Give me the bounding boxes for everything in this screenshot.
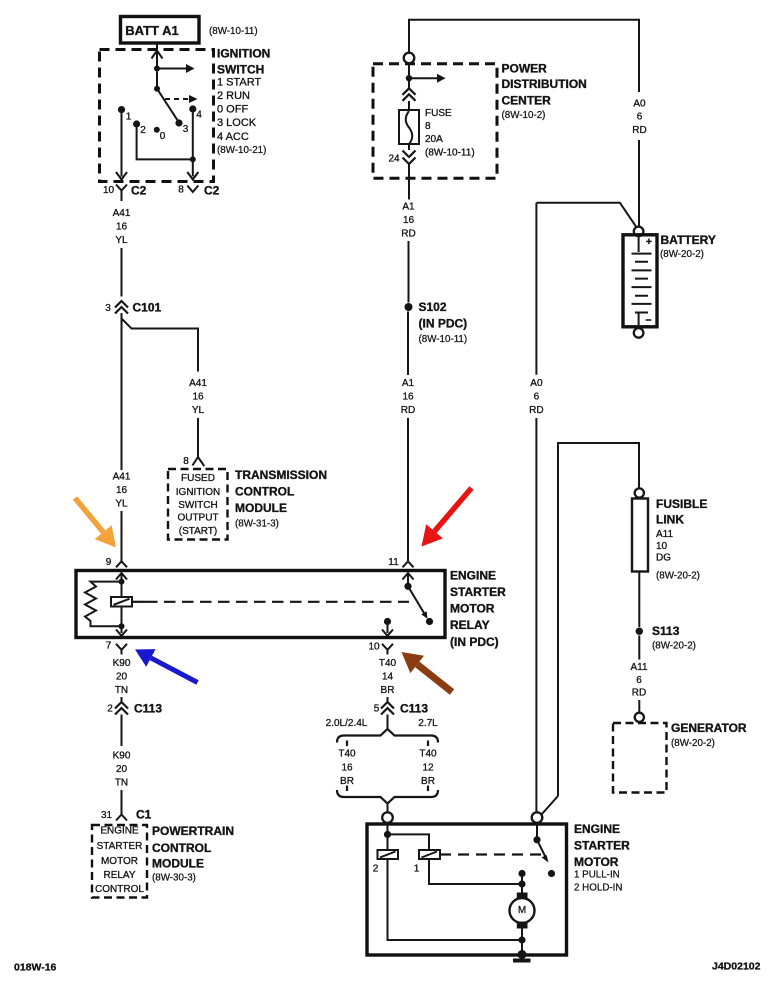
svg-text:YL: YL [115,235,128,246]
svg-text:IGNITION: IGNITION [217,47,270,61]
svg-text:1 PULL-IN: 1 PULL-IN [574,870,620,881]
svg-text:6: 6 [534,392,540,403]
svg-text:RD: RD [632,125,646,136]
svg-text:3: 3 [183,124,189,135]
svg-text:(8W-10-21): (8W-10-21) [217,145,266,156]
svg-text:A11: A11 [630,662,647,673]
svg-text:A0: A0 [530,378,543,389]
svg-text:MODULE: MODULE [152,857,204,871]
svg-text:4: 4 [196,110,202,121]
svg-text:C113: C113 [134,702,162,716]
svg-text:2 RUN: 2 RUN [217,90,250,102]
svg-text:(8W-10-11): (8W-10-11) [209,26,258,37]
svg-text:A1: A1 [402,378,415,389]
svg-text:20: 20 [116,764,128,775]
svg-text:10: 10 [368,642,380,653]
svg-text:6: 6 [637,112,643,123]
svg-text:BR: BR [340,776,354,787]
svg-text:20A: 20A [425,134,443,145]
svg-text:FUSIBLE: FUSIBLE [656,497,707,511]
svg-text:(8W-10-11): (8W-10-11) [425,148,475,159]
svg-text:S113: S113 [652,624,680,638]
svg-text:4 ACC: 4 ACC [217,131,249,143]
svg-text:1: 1 [126,112,132,123]
svg-text:+: + [646,236,652,248]
svg-text:2.0L/2.4L: 2.0L/2.4L [326,718,368,729]
svg-text:RELAY: RELAY [103,870,135,881]
svg-text:(8W-20-2): (8W-20-2) [660,249,704,260]
svg-text:20: 20 [116,672,128,683]
svg-text:(8W-20-2): (8W-20-2) [652,641,696,652]
svg-text:BR: BR [381,685,395,696]
svg-text:2.7L: 2.7L [418,718,438,729]
svg-text:16: 16 [403,215,415,226]
svg-text:POWERTRAIN: POWERTRAIN [152,824,234,838]
svg-text:FUSE: FUSE [425,108,452,119]
svg-text:A1: A1 [402,202,415,213]
svg-text:MOTOR: MOTOR [101,856,138,867]
svg-text:C2: C2 [131,184,147,198]
svg-text:T40: T40 [379,658,397,669]
svg-text:2: 2 [140,125,146,136]
svg-text:SWITCH: SWITCH [178,500,217,511]
svg-text:CONTROL: CONTROL [95,884,144,895]
svg-text:3 LOCK: 3 LOCK [217,117,257,129]
svg-text:YL: YL [192,405,205,416]
svg-text:STARTER: STARTER [97,841,143,852]
svg-text:5: 5 [374,704,380,715]
svg-text:16: 16 [341,763,353,774]
svg-text:RD: RD [401,229,415,240]
svg-text:BATTERY: BATTERY [661,233,716,247]
svg-text:2: 2 [107,704,113,715]
svg-text:(IN PDC): (IN PDC) [419,317,468,331]
svg-text:TRANSMISSION: TRANSMISSION [235,468,327,482]
svg-text:1: 1 [414,864,420,875]
svg-text:BR: BR [421,776,435,787]
svg-text:14: 14 [382,672,394,683]
svg-text:24: 24 [388,154,400,165]
svg-text:8: 8 [178,185,184,196]
svg-text:A11: A11 [656,529,673,540]
svg-text:−: − [645,315,651,327]
svg-text:A41: A41 [113,208,131,219]
svg-text:RD: RD [401,405,415,416]
svg-text:J4D02102: J4D02102 [712,961,761,973]
svg-text:K90: K90 [113,751,131,762]
svg-text:MODULE: MODULE [235,501,287,515]
svg-text:SWITCH: SWITCH [217,63,264,77]
svg-text:10: 10 [656,541,668,552]
svg-text:C1: C1 [136,808,152,822]
svg-text:16: 16 [402,392,414,403]
svg-text:C2: C2 [204,184,220,198]
svg-text:(IN PDC): (IN PDC) [450,635,499,649]
svg-text:GENERATOR: GENERATOR [671,721,747,735]
svg-text:16: 16 [192,392,204,403]
svg-text:6: 6 [636,675,642,686]
svg-text:MOTOR: MOTOR [450,602,495,616]
svg-text:(START): (START) [179,526,218,537]
svg-text:IGNITION: IGNITION [176,487,220,498]
svg-text:DISTRIBUTION: DISTRIBUTION [502,77,587,91]
svg-text:1 START: 1 START [217,77,261,89]
svg-text:11: 11 [388,557,399,568]
svg-text:LINK: LINK [656,513,684,527]
svg-text:S102: S102 [419,300,447,314]
svg-text:9: 9 [106,557,112,568]
svg-text:BATT A1: BATT A1 [125,23,178,38]
svg-text:(8W-20-2): (8W-20-2) [656,571,700,582]
svg-text:(8W-20-2): (8W-20-2) [671,738,715,749]
svg-text:CONTROL: CONTROL [235,485,294,499]
svg-text:STARTER: STARTER [450,585,506,599]
svg-text:YL: YL [115,499,128,510]
svg-text:A41: A41 [189,378,207,389]
svg-text:T40: T40 [338,749,356,760]
svg-text:(8W-30-3): (8W-30-3) [152,873,196,884]
svg-text:ENGINE: ENGINE [450,569,496,583]
svg-text:MOTOR: MOTOR [574,855,619,869]
svg-text:(8W-10-11): (8W-10-11) [419,334,468,345]
svg-text:TN: TN [115,778,128,789]
svg-text:A41: A41 [113,472,131,483]
svg-text:FUSED: FUSED [181,473,215,484]
svg-text:CENTER: CENTER [502,94,552,108]
svg-text:8: 8 [183,456,189,467]
svg-text:A0: A0 [633,99,646,110]
svg-text:3: 3 [105,303,111,314]
svg-text:RD: RD [632,688,646,699]
svg-text:K90: K90 [113,658,131,669]
svg-text:2 HOLD-IN: 2 HOLD-IN [574,883,622,894]
svg-text:7: 7 [106,641,112,652]
svg-text:0: 0 [160,131,166,142]
svg-text:018W-16: 018W-16 [14,962,57,974]
svg-text:16: 16 [116,222,128,233]
svg-text:CONTROL: CONTROL [152,841,211,855]
svg-text:ENGINE: ENGINE [574,822,620,836]
svg-text:M: M [518,905,526,916]
svg-text:10: 10 [103,185,115,196]
svg-text:(8W-10-2): (8W-10-2) [502,110,546,121]
svg-text:TN: TN [115,685,128,696]
svg-text:2: 2 [373,864,379,875]
svg-text:(8W-31-3): (8W-31-3) [235,519,279,530]
svg-text:C101: C101 [133,301,162,315]
svg-text:ENGINE: ENGINE [100,826,139,837]
svg-text:POWER: POWER [502,61,548,75]
svg-text:OUTPUT: OUTPUT [177,513,218,524]
svg-text:STARTER: STARTER [574,839,630,853]
svg-text:0 OFF: 0 OFF [217,104,248,116]
svg-text:RD: RD [529,405,543,416]
svg-text:8: 8 [425,121,431,132]
svg-text:31: 31 [101,810,113,821]
svg-text:12: 12 [422,763,434,774]
svg-text:C113: C113 [400,702,428,716]
svg-text:RELAY: RELAY [450,618,490,632]
svg-text:DG: DG [656,553,671,564]
svg-text:16: 16 [116,485,128,496]
svg-text:T40: T40 [419,749,437,760]
